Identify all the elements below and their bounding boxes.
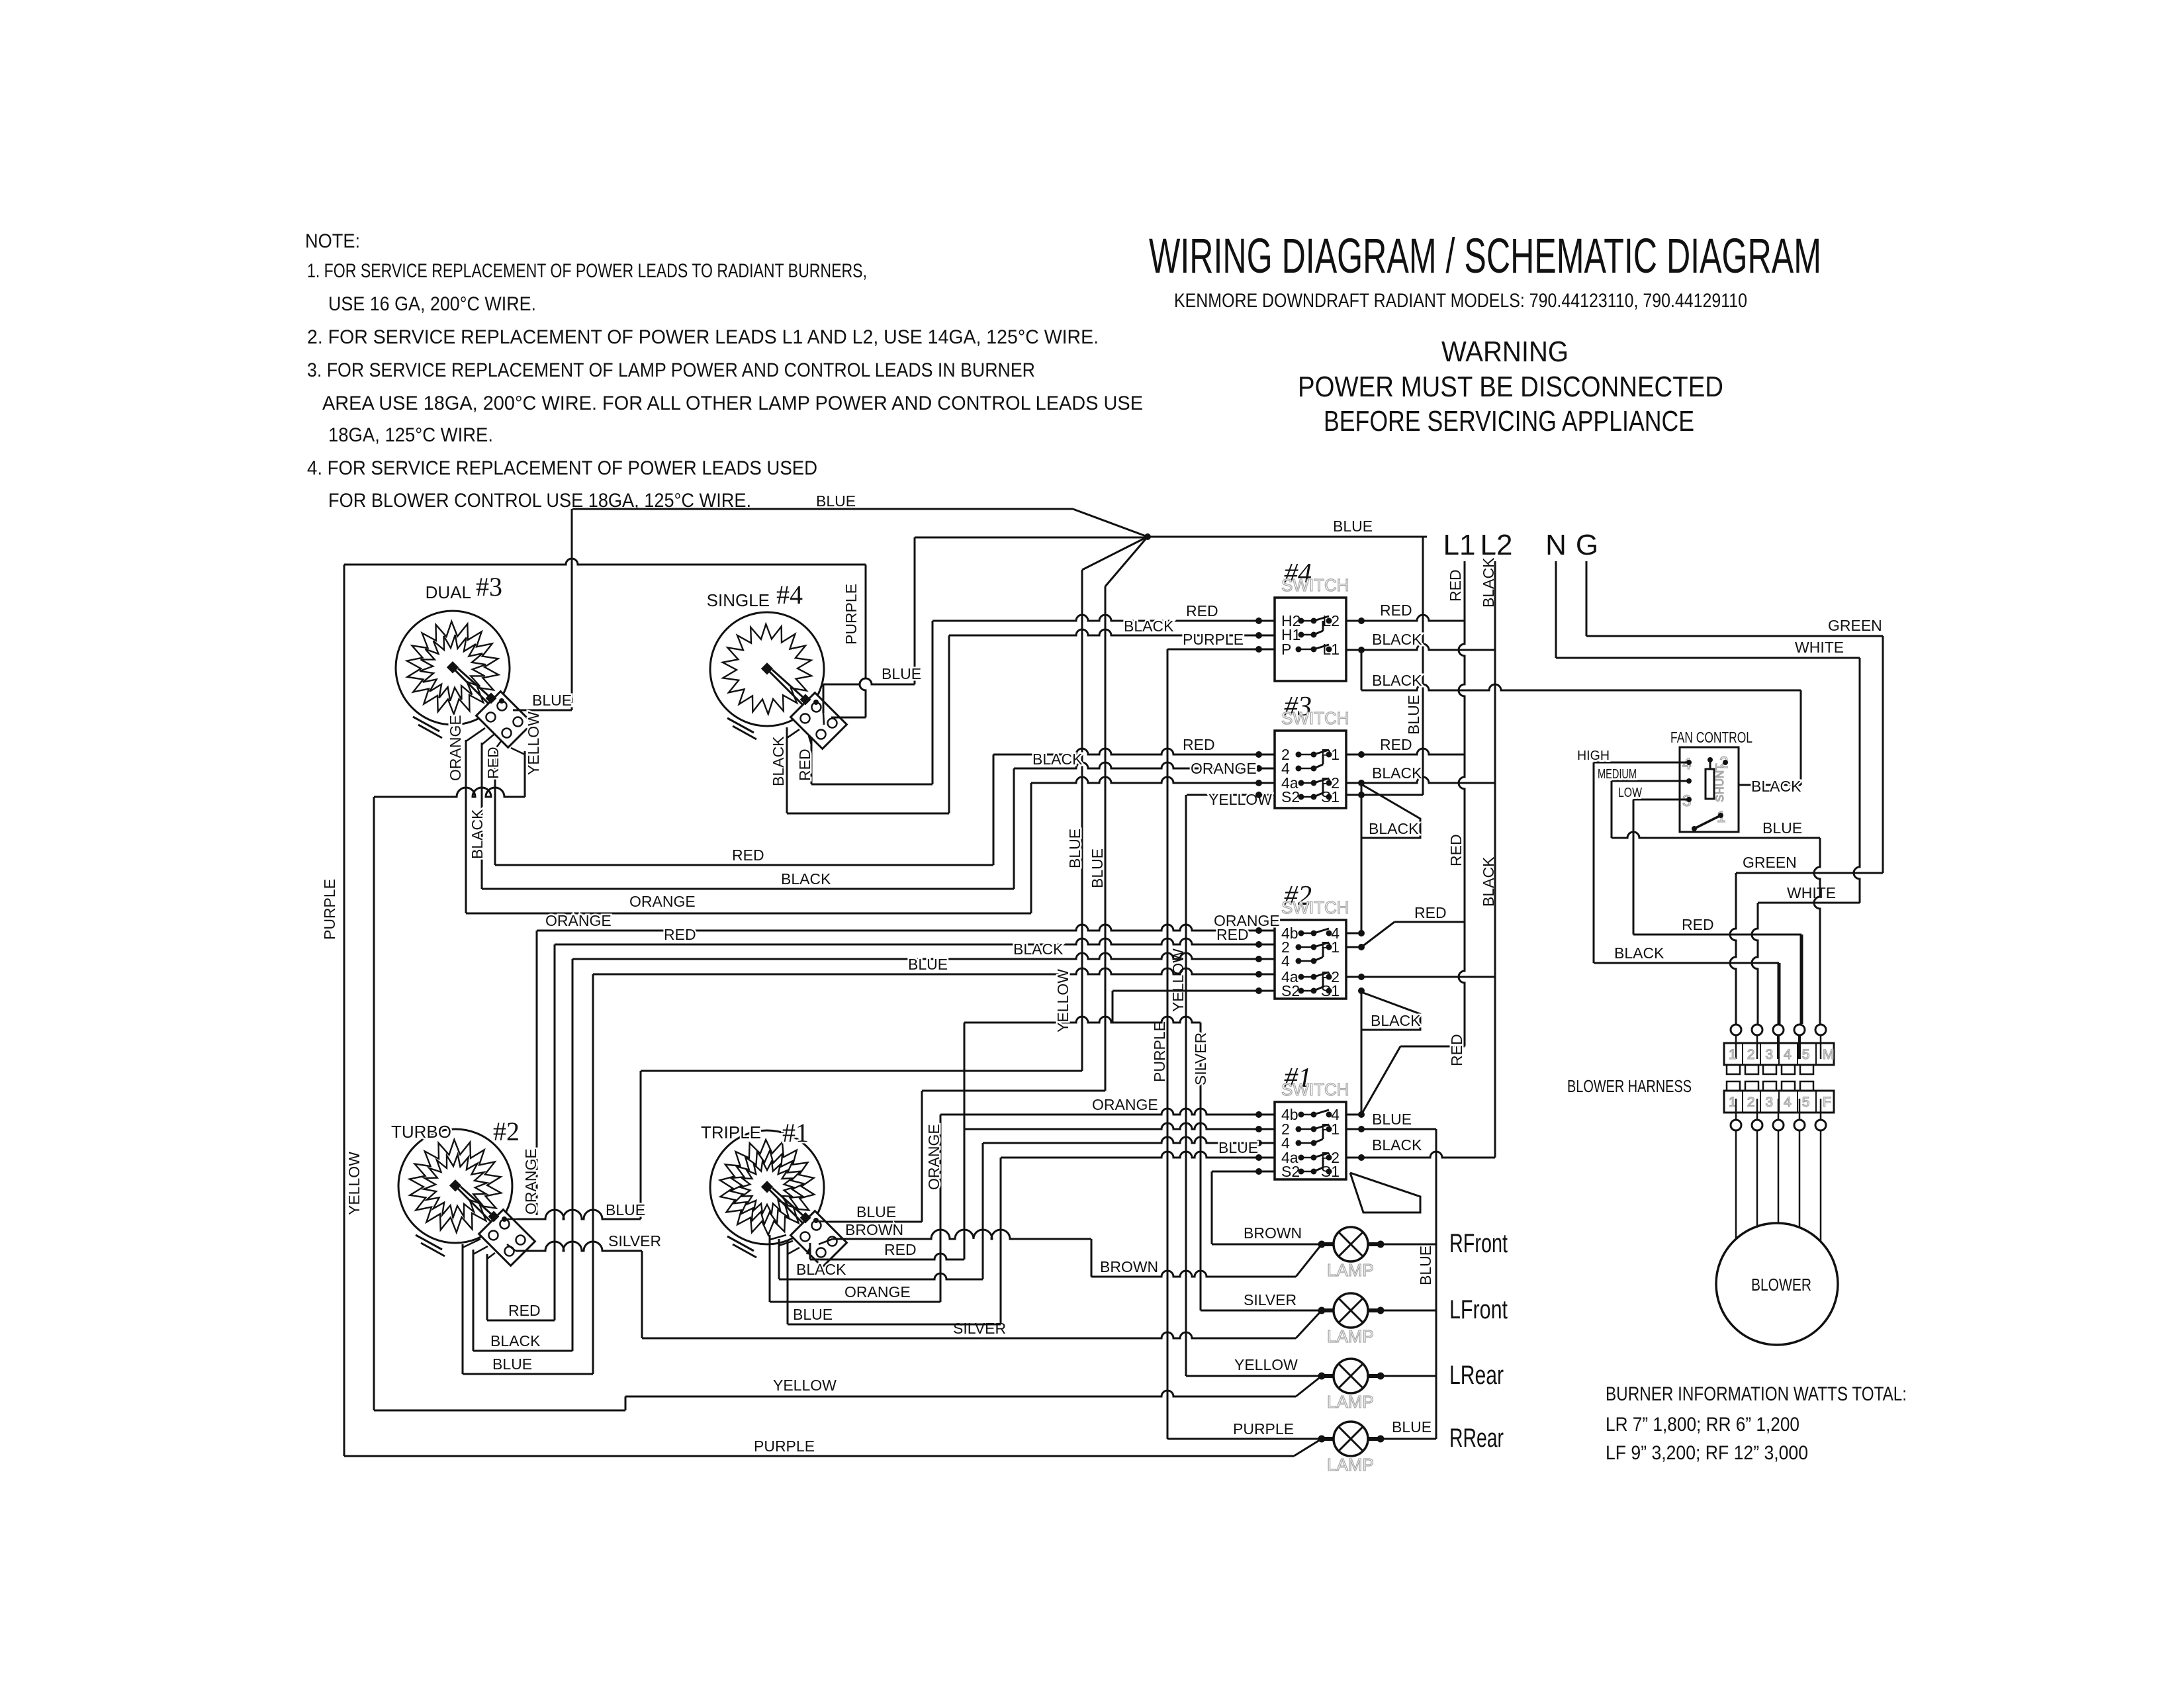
- wire YELLOW left bus: [373, 797, 375, 1410]
- wire RED sw3 P1 to bus: [1346, 749, 1465, 754]
- wire LOW vertical: [1633, 800, 1635, 935]
- wire RED fan chain: [1633, 934, 1801, 936]
- svg-text:BROWN: BROWN: [1100, 1258, 1158, 1275]
- svg-text:BLACK: BLACK: [770, 736, 787, 786]
- svg-text:YELLOW: YELLOW: [1234, 1356, 1298, 1373]
- wire BROWN burner1 pigtail: [833, 1230, 1091, 1239]
- wire BLUE burner3 to vertical: [513, 709, 572, 711]
- wire RED to sw2 pin2: [555, 938, 1275, 944]
- junction sw4 L1: [1358, 647, 1365, 653]
- svg-text:RED: RED: [1183, 736, 1215, 753]
- wire RRear to bus: [1381, 1438, 1436, 1440]
- svg-text:MEDIUM: MEDIUM: [1598, 767, 1637, 782]
- svg-text:PURPLE: PURPLE: [321, 879, 338, 940]
- svg-text:M: M: [1823, 1047, 1835, 1062]
- wire BROWN to sw1 S2: [1212, 1171, 1275, 1173]
- svg-text:RRear: RRear: [1449, 1424, 1504, 1453]
- svg-text:BLUE: BLUE: [532, 692, 572, 709]
- wire HIGH vertical: [1593, 762, 1595, 963]
- svg-text:BLACK: BLACK: [1371, 1012, 1421, 1029]
- wire YELLOW burner3 vertical: [524, 751, 526, 797]
- svg-text:BLACK: BLACK: [1124, 617, 1174, 635]
- wire BLACK burner3 vertical: [481, 743, 483, 889]
- wire BLACK sw3 P2 to bus: [1346, 777, 1495, 783]
- wire BROWN S2 down: [1211, 1171, 1213, 1244]
- svg-text:BLUE: BLUE: [793, 1306, 833, 1323]
- wire harness to blower: [1820, 1130, 1822, 1242]
- svg-text:BLUE: BLUE: [606, 1201, 645, 1218]
- svg-text:BLUE: BLUE: [1405, 695, 1422, 735]
- junction sw2 S2: [1255, 987, 1262, 994]
- svg-text:BLUE: BLUE: [1066, 829, 1083, 868]
- wire RED thick to pin4: [1800, 935, 1803, 1024]
- wire RED U bottom b2: [487, 1320, 555, 1322]
- wire RED sw2 P1 to bus: [1394, 921, 1465, 923]
- wire LOW: [1633, 799, 1689, 801]
- junction sw2 P2: [1358, 974, 1365, 980]
- svg-text:BLUE: BLUE: [1089, 848, 1106, 888]
- svg-text:BLUE: BLUE: [1333, 518, 1373, 535]
- wire vertical flag3 to sw2 pin4: [1361, 838, 1363, 933]
- svg-text:S2: S2: [1281, 1163, 1300, 1180]
- svg-text:PURPLE: PURPLE: [842, 584, 860, 645]
- wire LRear to bus: [1381, 1375, 1436, 1377]
- junction sw3 P1: [1358, 751, 1365, 758]
- junction sw1 4a: [1255, 1154, 1262, 1161]
- svg-text:BROWN: BROWN: [1244, 1224, 1302, 1242]
- wire sw2 P1 right: [1346, 946, 1361, 948]
- wire GREEN to harness pin1: [1730, 873, 1736, 1024]
- wire SILVER vertical down: [641, 1251, 643, 1338]
- svg-text:SWITCH: SWITCH: [1281, 575, 1349, 595]
- svg-text:YELLOW: YELLOW: [1208, 791, 1272, 808]
- svg-text:RED: RED: [664, 926, 696, 943]
- svg-text:G: G: [1576, 529, 1598, 561]
- wire MEDIUM vertical: [1611, 781, 1613, 838]
- svg-text:3: 3: [1765, 1047, 1773, 1062]
- wire BLACK burner3 horizontal: [482, 888, 1014, 890]
- wire BLACK U left b2: [473, 1250, 475, 1351]
- svg-text:S2: S2: [1281, 788, 1300, 805]
- svg-text:ORANGE: ORANGE: [522, 1148, 539, 1214]
- wire YELLOW to sw3 S2: [1187, 794, 1275, 796]
- flag BLACK sw2: [1361, 992, 1420, 1030]
- wire YELLOW lamp vertical: [1185, 795, 1187, 1376]
- wire ORANGE to sw2 4b: [537, 925, 1275, 931]
- wire BLUE burner1 vertical: [921, 1091, 923, 1222]
- wire PURPLE top horizontal: [344, 559, 866, 565]
- svg-text:BLUE: BLUE: [856, 1203, 896, 1220]
- svg-text:BLACK: BLACK: [1751, 778, 1801, 795]
- svg-text:ORANGE: ORANGE: [844, 1283, 911, 1301]
- wire RED burner4 horizontal: [811, 784, 933, 786]
- switch #2: [1275, 881, 1349, 999]
- wire RED burner4 vertical up: [932, 621, 934, 784]
- lamp RFront: [1318, 1227, 1508, 1280]
- wire BLACK to sw2 pin4: [572, 953, 1275, 959]
- svg-text:SWITCH: SWITCH: [1281, 1079, 1349, 1099]
- svg-text:RED: RED: [1414, 904, 1447, 921]
- wire BLACK box bottom b1: [779, 1273, 983, 1279]
- wire RED to sw1 pin2: [964, 1123, 1275, 1129]
- junction sw3 pin4a: [1255, 780, 1262, 786]
- svg-text:TURBO: TURBO: [391, 1122, 451, 1142]
- svg-text:ORANGE: ORANGE: [1191, 760, 1257, 777]
- wire RED burner4 down: [811, 737, 813, 784]
- junction sw1 pin4 right: [1358, 1111, 1365, 1118]
- switch #1: [1275, 1063, 1349, 1180]
- svg-text:PURPLE: PURPLE: [1183, 631, 1244, 648]
- wire diagonal node to BLUE vert 2: [1105, 537, 1148, 586]
- junction sw2 4a: [1255, 971, 1262, 978]
- wire BLUE to burner2: [641, 1070, 1082, 1072]
- wire BLUE to sw1 4a: [1001, 1152, 1275, 1158]
- wire BLACK burner4 horizontal: [787, 813, 949, 815]
- svg-text:2: 2: [1747, 1095, 1755, 1110]
- svg-text:BLUE: BLUE: [908, 956, 948, 973]
- svg-text:#3: #3: [476, 572, 502, 602]
- junction sw4 L2: [1358, 617, 1365, 624]
- wire BLUE lamp bus vertical: [1435, 1129, 1437, 1439]
- wire BLUE vert 2: [1105, 586, 1107, 1091]
- svg-text:BLOWER: BLOWER: [1751, 1275, 1811, 1295]
- svg-text:BLACK: BLACK: [1369, 820, 1419, 837]
- lamp LFront: [1318, 1293, 1508, 1346]
- burner TRIPLE #1: [710, 1130, 846, 1267]
- wire BLUE to harness pin5: [1814, 838, 1820, 1024]
- wire BROWN to RFront: [1212, 1244, 1322, 1246]
- svg-text:LAMP: LAMP: [1327, 1260, 1374, 1280]
- svg-text:BLUE: BLUE: [1417, 1246, 1434, 1285]
- wire BLUE burner2 vertical: [640, 1071, 642, 1219]
- wire BLUE to burner1: [922, 1090, 1105, 1092]
- junction sw1 S2: [1255, 1168, 1262, 1175]
- wire BLACK into fan control: [1739, 784, 1801, 786]
- wire BLUE node to left: [915, 537, 1148, 539]
- wire ORANGE burner3 horizontal: [466, 913, 1031, 915]
- svg-text:BLACK: BLACK: [1032, 751, 1083, 768]
- node junction: [1144, 533, 1151, 540]
- wire RED box bottom b1: [810, 1254, 964, 1259]
- wire GREEN lower: [1736, 872, 1883, 874]
- svg-text:LRear: LRear: [1449, 1361, 1504, 1390]
- svg-text:#2: #2: [493, 1117, 520, 1146]
- svg-text:YELLOW: YELLOW: [1169, 948, 1187, 1012]
- wire RED L1 bus: [1459, 561, 1465, 1046]
- wire ORANGE to sw1 4b: [940, 1109, 1275, 1115]
- svg-text:N: N: [1545, 529, 1567, 561]
- wire YELLOW bottom jog: [374, 1410, 625, 1412]
- svg-text:KENMORE DOWNDRAFT RADIANT MODE: KENMORE DOWNDRAFT RADIANT MODELS: 790.44…: [1174, 290, 1747, 312]
- svg-text:BLACK: BLACK: [1372, 764, 1422, 782]
- wire BLACK loop to fan: [1361, 684, 1801, 690]
- wire BLUE burner4 vertical up: [823, 684, 825, 713]
- svg-text:HIGH: HIGH: [1577, 749, 1610, 763]
- svg-text:PURPLE: PURPLE: [1151, 1021, 1168, 1082]
- wire BROWN diagonal to RFront: [1296, 1244, 1322, 1277]
- wire BLUE fan to harness: [1612, 832, 1820, 838]
- wire YELLOW burner3 horizontal left: [374, 788, 525, 797]
- junction sw1 P1 right: [1358, 1126, 1365, 1132]
- flag BLACK sw3: [1361, 784, 1420, 838]
- svg-text:ORANGE: ORANGE: [629, 893, 696, 910]
- lamp RRear: [1318, 1422, 1504, 1475]
- wire BLACK loop vertical: [1800, 690, 1802, 785]
- junction sw1 P2 right: [1358, 1154, 1365, 1161]
- wire MEDIUM: [1612, 780, 1689, 782]
- wire ORANGE to sw3 pin4a: [1031, 777, 1275, 783]
- wire WHITE from N: [1556, 657, 1860, 659]
- svg-text:SILVER: SILVER: [1192, 1032, 1209, 1085]
- svg-text:BLACK: BLACK: [781, 870, 831, 888]
- svg-text:GREEN: GREEN: [1743, 854, 1797, 871]
- wire harness to blower: [1756, 1130, 1758, 1226]
- svg-text:L2: L2: [1480, 529, 1513, 561]
- svg-text:SHUNT: SHUNT: [1713, 763, 1726, 802]
- wire HIGH: [1594, 762, 1689, 764]
- svg-text:BLACK: BLACK: [1372, 672, 1422, 689]
- svg-text:BLUE: BLUE: [492, 1355, 532, 1373]
- svg-text:S2: S2: [1281, 982, 1300, 999]
- wire silver chain horizontal: [964, 1017, 1201, 1023]
- svg-text:BLACK: BLACK: [1372, 631, 1422, 648]
- wire ORANGE burner3 up: [1030, 783, 1032, 913]
- svg-text:#1: #1: [782, 1118, 809, 1148]
- wire BLUE box bottom b1: [788, 1324, 1001, 1326]
- wire PURPLE vertical to burner 4: [860, 565, 866, 717]
- svg-text:5: 5: [1802, 1047, 1810, 1062]
- svg-text:BLACK: BLACK: [490, 1332, 541, 1349]
- svg-text:BLACK: BLACK: [1013, 940, 1064, 958]
- svg-text:LAMP: LAMP: [1327, 1326, 1374, 1346]
- wire BLACK U bottom b2: [473, 1350, 572, 1352]
- wire BLUE box right b1: [1000, 1158, 1002, 1324]
- svg-text:RED: RED: [484, 747, 502, 779]
- wire harness to blower: [1778, 1130, 1780, 1223]
- svg-text:BLUE: BLUE: [1372, 1111, 1412, 1128]
- svg-text:RED: RED: [1447, 569, 1464, 602]
- wire BLUE top bus: [572, 508, 1073, 510]
- wire BLACK box right b1: [982, 1143, 984, 1279]
- wire BLACK burner4 down: [786, 727, 788, 813]
- wire BLUE node to right: [1148, 536, 1427, 538]
- junction sw3 pin2: [1255, 751, 1262, 758]
- svg-text:USE 16 GA, 200°C WIRE.: USE 16 GA, 200°C WIRE.: [328, 293, 536, 315]
- wire ORANGE burner2 vertical: [536, 931, 538, 1215]
- wire BLUE U left b2: [462, 1244, 464, 1374]
- svg-text:BLACK: BLACK: [469, 809, 486, 859]
- svg-text:WARNING: WARNING: [1441, 336, 1569, 368]
- svg-text:ORANGE: ORANGE: [447, 715, 464, 781]
- svg-text:2. FOR SERVICE REPLACEMENT OF: 2. FOR SERVICE REPLACEMENT OF POWER LEAD…: [307, 326, 1099, 348]
- wire PURPLE to P: [1167, 649, 1275, 651]
- wire sw2 pin4 right: [1346, 933, 1361, 935]
- svg-text:BLACK: BLACK: [1614, 944, 1664, 962]
- svg-text:BLUE: BLUE: [816, 492, 856, 510]
- svg-text:BLACK: BLACK: [1372, 1136, 1422, 1154]
- wire YELLOW long: [625, 1391, 1296, 1396]
- wire RED horizontal to bus: [1400, 1046, 1465, 1048]
- flag sw1 S1: [1350, 1173, 1420, 1212]
- svg-text:BLACK: BLACK: [796, 1261, 846, 1278]
- junction sw2 pin4 right: [1358, 930, 1365, 937]
- wire BLUE U right b2: [592, 974, 594, 1374]
- wire BLACK box left b1: [778, 1239, 780, 1279]
- wire to sw2 S2: [1113, 990, 1275, 992]
- junction sw2 pin4: [1255, 956, 1262, 962]
- wire vertical flag2 to sw1 pin4: [1361, 1030, 1363, 1115]
- svg-text:RED: RED: [1447, 834, 1465, 866]
- svg-text:RED: RED: [884, 1241, 917, 1258]
- burner SINGLE #4: [710, 612, 846, 749]
- svg-text:18GA, 125°C WIRE.: 18GA, 125°C WIRE.: [328, 424, 493, 446]
- wire BLACK burner3 up: [1013, 768, 1015, 889]
- svg-text:#4: #4: [776, 580, 803, 610]
- wire harness to blower: [1735, 1130, 1737, 1239]
- wire harness to blower: [1799, 1130, 1801, 1227]
- svg-text:YELLOW: YELLOW: [345, 1152, 363, 1215]
- junction P: [1255, 646, 1262, 653]
- burner TURBO #2: [398, 1129, 535, 1265]
- svg-text:F: F: [1823, 1095, 1831, 1110]
- wire RED box right b1: [964, 1023, 966, 1259]
- wire ORANGE box bottom b1: [770, 1301, 940, 1303]
- wire WHITE to harness pin2: [1752, 903, 1758, 1024]
- wire BLUE burner4 horizontal: [823, 678, 915, 684]
- wire PURPLE into connector 4: [831, 717, 866, 719]
- switch #4: [1275, 559, 1349, 681]
- svg-text:YELLOW: YELLOW: [525, 711, 542, 775]
- blower: [1716, 1223, 1838, 1345]
- junction sw2 P1: [1358, 944, 1365, 950]
- wire WHITE vertical right: [1854, 658, 1860, 903]
- svg-text:RED: RED: [1682, 916, 1714, 933]
- svg-text:BLUE: BLUE: [882, 665, 921, 682]
- wire BLACK to sw1 pin4: [983, 1137, 1275, 1143]
- svg-text:BEFORE SERVICING APPLIANCE: BEFORE SERVICING APPLIANCE: [1324, 405, 1694, 437]
- wire BROWN long: [1091, 1271, 1296, 1277]
- svg-text:TRIPLE: TRIPLE: [701, 1122, 761, 1142]
- svg-text:SWITCH: SWITCH: [1281, 708, 1349, 728]
- wire BLACK loop down: [1361, 650, 1363, 690]
- svg-text:DUAL: DUAL: [426, 582, 471, 602]
- wire BLACK burner4 vertical up: [948, 635, 950, 813]
- wire BLACK thick to pin3: [1778, 963, 1781, 1024]
- svg-text:3. FOR SERVICE REPLACEMENT OF: 3. FOR SERVICE REPLACEMENT OF LAMP POWER…: [307, 359, 1035, 381]
- wire RED to H2: [933, 615, 1275, 621]
- junction sw1 pin4: [1255, 1140, 1262, 1146]
- wire WHITE N vertical: [1555, 561, 1557, 658]
- wire SILVER burner2 pigtail: [516, 1242, 642, 1251]
- wire BLACK U right b2: [572, 959, 574, 1351]
- wire BLACK to H1: [949, 629, 1275, 635]
- svg-text:AREA USE 18GA, 200°C WIRE. FO: AREA USE 18GA, 200°C WIRE. FOR ALL OTHER…: [322, 392, 1143, 414]
- svg-text:4: 4: [1784, 1095, 1792, 1110]
- svg-text:BURNER INFORMATION WATTS TOTAL: BURNER INFORMATION WATTS TOTAL:: [1606, 1383, 1907, 1405]
- svg-text:NOTE:: NOTE:: [305, 230, 360, 252]
- wire WHITE lower: [1758, 902, 1860, 904]
- svg-text:4. FOR SERVICE REPLACEMENT OF: 4. FOR SERVICE REPLACEMENT OF POWER LEAD…: [307, 457, 817, 479]
- junction sw3 P2: [1358, 780, 1365, 786]
- svg-text:YELLOW: YELLOW: [1054, 969, 1071, 1032]
- svg-text:SINGLE: SINGLE: [707, 590, 770, 610]
- svg-text:4: 4: [1281, 952, 1290, 970]
- wire BLUE vert 1: [1081, 570, 1083, 1071]
- wire BROWN down: [1091, 1239, 1093, 1277]
- junction sw1 4b: [1255, 1111, 1262, 1118]
- svg-text:LR 7” 1,800; RR 6” 1,200: LR 7” 1,800; RR 6” 1,200: [1606, 1414, 1799, 1436]
- svg-text:2: 2: [1747, 1047, 1755, 1062]
- wire LFront to bus: [1381, 1310, 1436, 1312]
- wire ORANGE box left b1: [769, 1235, 771, 1302]
- wire BLUE to sw2 4a: [593, 968, 1275, 974]
- svg-text:YELLOW: YELLOW: [773, 1377, 837, 1394]
- svg-text:RED: RED: [1186, 602, 1218, 619]
- svg-text:LF 9” 3,200; RF 12” 3,000: LF 9” 3,200; RF 12” 3,000: [1606, 1442, 1808, 1464]
- burner DUAL #3: [396, 611, 532, 754]
- wire RED burner3 vertical: [494, 747, 496, 865]
- wire PURPLE diagonal to RRear: [1294, 1439, 1322, 1456]
- wire diagonal node to BLUE vert 1: [1082, 537, 1148, 570]
- svg-text:BLUE: BLUE: [1218, 1139, 1258, 1156]
- svg-text:5: 5: [1802, 1095, 1810, 1110]
- wire BLUE burner1 pigtail: [829, 1221, 922, 1223]
- svg-text:RED: RED: [1448, 1034, 1465, 1066]
- svg-text:SILVER: SILVER: [1244, 1291, 1297, 1308]
- svg-text:RED: RED: [1380, 602, 1412, 619]
- svg-text:ORANGE: ORANGE: [925, 1124, 942, 1190]
- svg-text:LAMP: LAMP: [1327, 1455, 1374, 1475]
- wire SILVER to LFront: [1201, 1310, 1322, 1312]
- wire RED U left b2: [486, 1254, 488, 1320]
- svg-text:BLUE: BLUE: [1762, 819, 1802, 837]
- svg-text:3: 3: [1765, 1095, 1773, 1110]
- wire PURPLE to RRear: [1167, 1438, 1322, 1440]
- wire BLUE U bottom b2: [463, 1373, 593, 1375]
- svg-text:WHITE: WHITE: [1795, 639, 1844, 656]
- wire BLUE burner3 vertical: [571, 509, 573, 710]
- fan switch arm: [1694, 815, 1721, 829]
- svg-text:RED: RED: [732, 846, 764, 864]
- svg-text:POWER MUST BE DISCONNECTED: POWER MUST BE DISCONNECTED: [1298, 371, 1723, 403]
- junction sw3 S1: [1358, 792, 1365, 798]
- svg-text:RED: RED: [1216, 926, 1249, 943]
- svg-text:LOW: LOW: [1618, 786, 1642, 800]
- junction sw2 pin2: [1255, 941, 1262, 948]
- wire BLUE to sw3 S1: [1346, 794, 1423, 796]
- switch #3: [1275, 692, 1349, 808]
- wire RED to sw3 pin2: [993, 749, 1275, 754]
- wire RED sw4 L2 to L1 bus: [1346, 615, 1465, 621]
- svg-text:L1: L1: [1443, 529, 1476, 561]
- wire BLACK sw4 L1 to L2 bus: [1346, 644, 1495, 650]
- wire RED U right b2: [554, 944, 556, 1320]
- svg-text:RED: RED: [796, 749, 813, 781]
- svg-text:LAMP: LAMP: [1327, 1392, 1374, 1412]
- wire PURPLE bottom: [344, 1455, 1294, 1457]
- wire BLACK sw1 P2 to bus: [1346, 1152, 1495, 1158]
- wire YELLOW to LRear: [1186, 1375, 1322, 1377]
- wire GREEN vertical right: [1882, 636, 1884, 873]
- wire RED burner3 horizontal: [495, 864, 993, 866]
- wire YELLOW diagonal to LRear: [1296, 1376, 1322, 1396]
- wire BLACK sw2 P2 to bus: [1346, 976, 1495, 978]
- svg-text:BLOWER HARNESS: BLOWER HARNESS: [1567, 1076, 1692, 1096]
- blower harness connector: [1724, 1025, 1835, 1130]
- wire RED diagonal to bus: [1361, 1046, 1400, 1115]
- svg-text:SWITCH: SWITCH: [1281, 897, 1349, 917]
- svg-text:PURPLE: PURPLE: [754, 1438, 815, 1455]
